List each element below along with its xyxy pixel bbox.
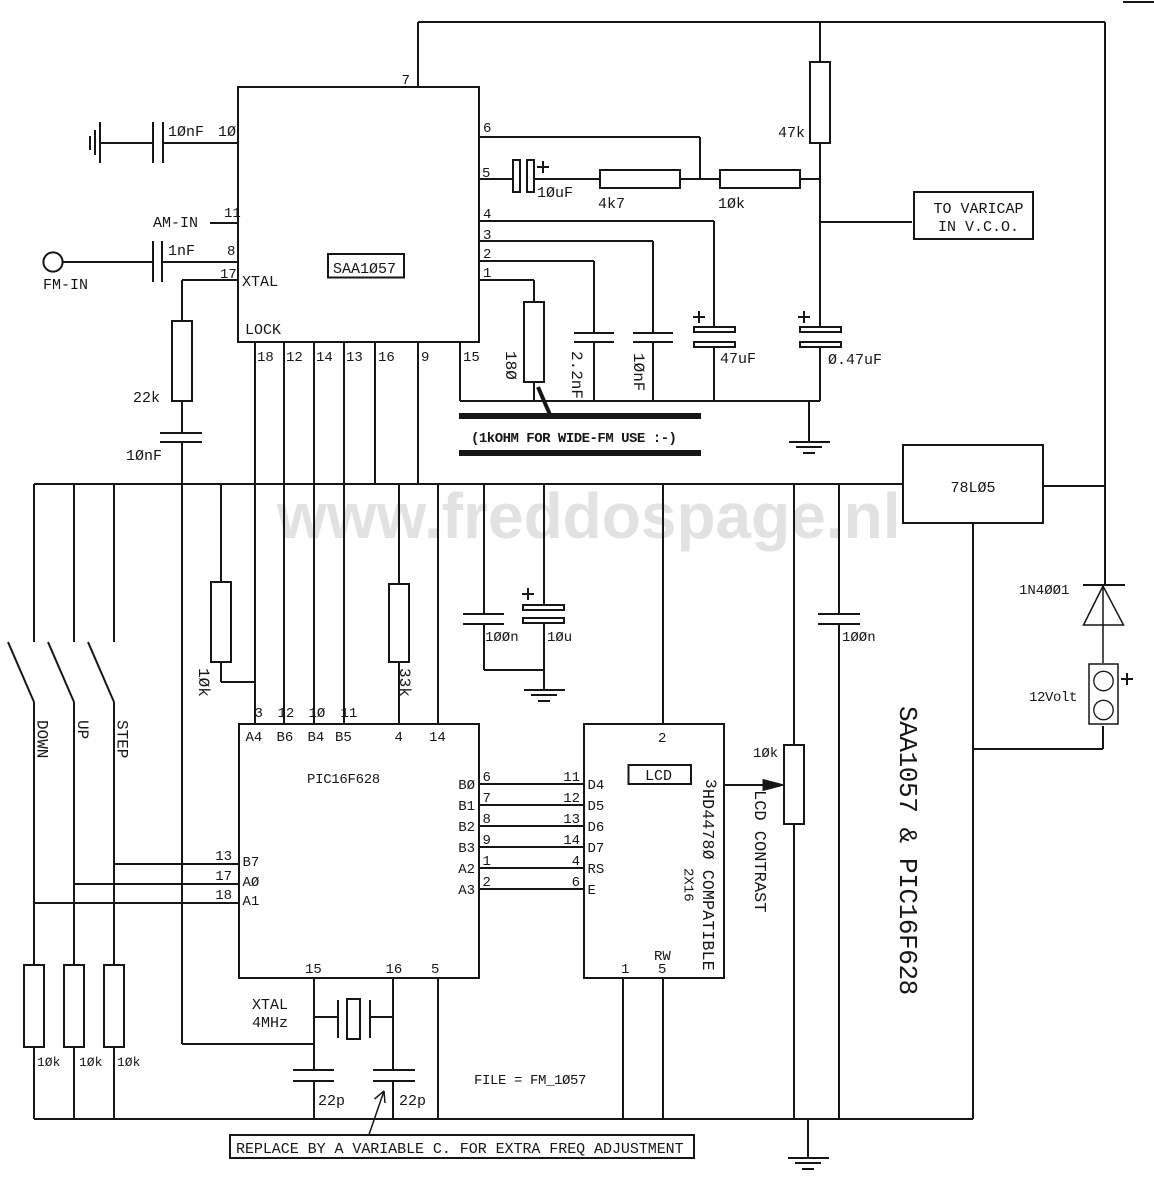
svg-text:22p: 22p xyxy=(318,1093,345,1110)
wire PIC A2 to LCD RS xyxy=(479,867,584,869)
pin label 2 xyxy=(658,731,666,747)
LCD name box xyxy=(629,765,692,784)
IC U1 name box xyxy=(328,254,404,278)
connector J1 12Volt body xyxy=(1089,664,1118,724)
wire R 180 to ground rail xyxy=(533,382,535,401)
wire pin 17 to R 22k xyxy=(182,280,238,321)
wire right C 100n to bottom rail xyxy=(838,624,840,1119)
label LCD CONTRAST rotated xyxy=(749,790,768,912)
value label 10k xyxy=(37,1055,61,1070)
svg-text:1: 1 xyxy=(621,962,629,978)
pin label 3 rotated xyxy=(701,779,719,789)
value label 1N4001 xyxy=(1019,583,1069,599)
pin 17 XTAL label xyxy=(242,274,278,291)
wire switch DOWN node to PIC pin 18 A1 xyxy=(34,902,239,904)
wire LCD pin 5 RW to bottom rail xyxy=(662,978,664,1119)
wire R 47k to varicap node and C 0.47uF xyxy=(819,143,821,327)
pin label 7 xyxy=(483,791,491,807)
IC U1 SAA1057 body xyxy=(238,87,479,342)
value label 100n xyxy=(485,630,519,646)
wire FM-IN to C 1nF xyxy=(62,261,153,263)
resistor R 10k pull-down STEP xyxy=(104,965,124,1047)
pin name D5 xyxy=(588,799,605,815)
crystal Y1 body xyxy=(347,999,360,1039)
pin name 14 xyxy=(429,730,446,746)
svg-text:47uF: 47uF xyxy=(720,351,756,368)
svg-text:BØ: BØ xyxy=(458,778,475,794)
resistor R 10k xyxy=(720,170,800,188)
wire C 10nF to ground rail xyxy=(652,342,654,401)
value label 22p xyxy=(399,1093,426,1110)
svg-text:1ØnF: 1ØnF xyxy=(126,448,162,465)
resistor R 33k xyxy=(389,584,409,662)
wire PIC A3 to LCD E xyxy=(479,888,584,890)
pin label 7 xyxy=(402,73,410,89)
wire switch UP to R 10k xyxy=(73,702,75,965)
wire crystal right lead xyxy=(370,1016,393,1018)
resistor R 47k xyxy=(810,62,830,143)
svg-text:STEP: STEP xyxy=(113,720,131,758)
note box REPLACE BY A VARIABLE C. xyxy=(230,1135,694,1158)
svg-text:2: 2 xyxy=(483,875,491,891)
svg-text:PIC16F628: PIC16F628 xyxy=(307,772,380,788)
callout bottom bar xyxy=(459,450,701,456)
svg-text:47k: 47k xyxy=(778,125,805,142)
pin name B7 xyxy=(243,855,260,871)
pin name D7 xyxy=(588,841,605,857)
svg-text:AØ: AØ xyxy=(243,875,260,891)
wire 5V bus to switch STEP xyxy=(113,484,115,642)
svg-text:(1kOHM FOR WIDE-FM USE :-): (1kOHM FOR WIDE-FM USE :-) xyxy=(471,431,676,447)
connector J1 pin circle + xyxy=(1094,671,1113,690)
resistor R 180 xyxy=(524,302,544,382)
label DOWN rotated xyxy=(33,720,51,758)
wire R 10k to bottom rail xyxy=(33,1047,35,1119)
pin name E xyxy=(588,883,596,899)
svg-text:1ØnF: 1ØnF xyxy=(629,353,647,391)
pin name RW xyxy=(654,949,671,965)
wire bottom rail to ground symbol xyxy=(807,1119,809,1158)
svg-text:15: 15 xyxy=(305,962,322,978)
svg-text:1ØØn: 1ØØn xyxy=(842,630,876,646)
svg-text:3: 3 xyxy=(701,779,719,789)
pin label 13 xyxy=(215,849,232,865)
svg-text:11: 11 xyxy=(341,706,358,722)
wire LCD pin 3 to potentiometer wiper xyxy=(724,784,763,786)
wire 5V bus to right C 100n xyxy=(838,484,840,614)
wire R 10k to varicap node xyxy=(800,178,820,180)
pin name 5 xyxy=(431,962,439,978)
value label 10nF rotated xyxy=(629,353,647,391)
pin label 16 xyxy=(378,350,395,366)
svg-text:14: 14 xyxy=(563,833,580,849)
svg-text:33k: 33k xyxy=(395,668,413,697)
pin label 10 xyxy=(218,124,236,141)
crystal Y1 right plate xyxy=(369,1000,371,1038)
pin label 10 xyxy=(309,706,326,722)
pin label 6 xyxy=(483,770,491,786)
decoupling capacitor C 100n right xyxy=(818,614,860,624)
pin label 17 xyxy=(215,869,232,885)
svg-text:6: 6 xyxy=(483,121,491,137)
label 4MHz xyxy=(252,1015,288,1032)
svg-text:1ØnF: 1ØnF xyxy=(168,124,204,141)
label UP rotated xyxy=(73,720,91,739)
pin name 4 xyxy=(395,730,403,746)
right supply rail from top to diode xyxy=(1104,22,1106,585)
wire C 22p right to bottom rail xyxy=(392,1081,394,1119)
svg-text:1: 1 xyxy=(483,854,491,870)
svg-text:LCD: LCD xyxy=(645,768,672,785)
value label 10nF xyxy=(168,124,204,141)
diode D1 1N4001 triangle xyxy=(1084,586,1124,625)
svg-text:LOCK: LOCK xyxy=(245,322,281,339)
wire SAA pin 9 to 5V bus xyxy=(417,342,419,484)
label FILE = FM_1057 xyxy=(474,1073,586,1089)
svg-text:A1: A1 xyxy=(243,894,260,910)
svg-text:1Ø: 1Ø xyxy=(309,706,326,722)
svg-text:12Volt: 12Volt xyxy=(1029,690,1077,706)
svg-text:TO VARICAP: TO VARICAP xyxy=(933,201,1023,218)
resistor R 4k7 xyxy=(600,170,680,188)
pin label 14 xyxy=(316,350,333,366)
pin name B4 xyxy=(308,730,325,746)
svg-text:22k: 22k xyxy=(133,390,160,407)
LCD name label xyxy=(645,768,672,785)
pin label 11 xyxy=(563,770,580,786)
svg-text:1ØuF: 1ØuF xyxy=(537,185,573,202)
pin name 16 xyxy=(386,962,403,978)
svg-text:5: 5 xyxy=(658,962,666,978)
value label 47uF xyxy=(720,351,756,368)
pin 18 LOCK label xyxy=(245,322,281,339)
svg-text:1Øk: 1Øk xyxy=(718,196,745,213)
callout pointer to R 180 xyxy=(538,387,551,417)
node FM-IN label xyxy=(43,277,88,294)
resistor R 10k pull-down DOWN xyxy=(24,965,44,1047)
wire SAA pin 12 to PIC pin 12 xyxy=(283,342,285,724)
pin name D6 xyxy=(588,820,605,836)
ground under C 0.47uF xyxy=(789,442,830,453)
pin label 9 xyxy=(483,833,491,849)
svg-text:1Øu: 1Øu xyxy=(547,630,572,646)
pin name B&#216; xyxy=(458,778,475,794)
wire C 10u to ground xyxy=(543,623,545,690)
svg-text:12: 12 xyxy=(563,791,580,807)
pin label 12 xyxy=(563,791,580,807)
pin name RS xyxy=(588,862,605,878)
wire 5V bus to C 100n xyxy=(483,484,485,614)
capacitor C 10nF at pin 10 xyxy=(153,122,163,163)
value label 10k xyxy=(117,1055,141,1070)
value label 10k xyxy=(79,1055,103,1070)
label TO VARICAP xyxy=(933,201,1023,218)
svg-text:www.freddospage.nl: www.freddospage.nl xyxy=(276,480,900,552)
svg-text:78LØ5: 78LØ5 xyxy=(950,480,995,497)
wire PIC B2 to LCD D6 xyxy=(479,825,584,827)
wire SAA pin 13 to PIC pin 11 xyxy=(343,342,345,724)
connector FM-IN terminal xyxy=(43,252,62,271)
note text REPLACE BY A VARIABLE C. FOR EXTRA FREQ ADJUSTMENT xyxy=(236,1141,684,1158)
callout text (1kOHM FOR WIDE-FM USE :-) xyxy=(471,431,676,447)
svg-text:12: 12 xyxy=(286,350,303,366)
wire through diode xyxy=(1102,585,1104,663)
svg-text:22p: 22p xyxy=(399,1093,426,1110)
wire SAA pin 15 to ground rail xyxy=(459,342,461,401)
pin label 2 xyxy=(483,875,491,891)
svg-text:18: 18 xyxy=(257,350,274,366)
svg-text:REPLACE BY A VARIABLE C. FOR E: REPLACE BY A VARIABLE C. FOR EXTRA FREQ … xyxy=(236,1141,684,1158)
label 12Volt xyxy=(1029,690,1077,706)
pin label 4 xyxy=(572,854,580,870)
capacitor C 47uF electrolytic xyxy=(694,327,735,347)
pin label 8 xyxy=(483,812,491,828)
wire 5V bus to switch UP xyxy=(73,484,75,642)
wire C 22p left to bottom rail xyxy=(313,1081,315,1119)
pin label 12 xyxy=(286,350,303,366)
pin name B2 xyxy=(458,820,475,836)
svg-text:13: 13 xyxy=(346,350,363,366)
svg-text:FILE = FM_1Ø57: FILE = FM_1Ø57 xyxy=(474,1073,586,1089)
svg-text:IN V.C.O.: IN V.C.O. xyxy=(938,219,1019,236)
wire PIC B1 to LCD D5 xyxy=(479,804,584,806)
svg-text:18: 18 xyxy=(215,888,232,904)
svg-text:1Ø: 1Ø xyxy=(218,124,236,141)
svg-text:13: 13 xyxy=(215,849,232,865)
svg-text:2: 2 xyxy=(658,731,666,747)
svg-text:E: E xyxy=(588,883,596,899)
switch DOWN arm xyxy=(8,642,34,702)
wire 5V bus to R 33k xyxy=(398,484,400,584)
potentiometer R 10k body xyxy=(784,745,804,824)
connector J1 pin circle - xyxy=(1094,700,1113,719)
diode D1 1N4001 cathode bar xyxy=(1083,584,1125,586)
polarity + of C 47uF xyxy=(693,311,705,323)
wire pin 4 to C 47uF xyxy=(479,221,714,327)
callout top bar xyxy=(459,413,701,419)
svg-text:B6: B6 xyxy=(277,730,294,746)
svg-text:1Øk: 1Øk xyxy=(79,1055,103,1070)
value label 22p xyxy=(318,1093,345,1110)
svg-text:4MHz: 4MHz xyxy=(252,1015,288,1032)
title SAA1057 & PIC16F628 rotated xyxy=(892,706,922,995)
regulator U3 78L05 box xyxy=(903,445,1043,523)
value label 22k xyxy=(133,390,160,407)
wire 5V bus to PIC pin 14 xyxy=(437,484,439,724)
pin label 1 xyxy=(483,266,491,282)
svg-text:A3: A3 xyxy=(458,883,475,899)
svg-text:14: 14 xyxy=(316,350,333,366)
capacitor C 10uF electrolytic xyxy=(513,160,534,192)
svg-text:4k7: 4k7 xyxy=(598,196,625,213)
wire SAA pin 16 to 5V bus xyxy=(374,342,376,484)
svg-text:RS: RS xyxy=(588,862,605,878)
pin label 11 xyxy=(224,206,241,222)
svg-text:XTAL: XTAL xyxy=(242,274,278,291)
pin label 13 xyxy=(346,350,363,366)
wire C 10nF down across 5V bus to XTAL net xyxy=(182,442,314,1044)
pin name B3 xyxy=(458,841,475,857)
wire pin 5 to C 10uF xyxy=(479,178,513,180)
wire PIC pin 5 to bottom rail xyxy=(437,978,439,1119)
wire 5V bus to R 10k pullup xyxy=(220,484,222,582)
wire 78L05 ground pin down to bottom rail xyxy=(972,523,974,1119)
switch UP arm xyxy=(48,642,74,702)
decoupling capacitor C 100n left xyxy=(463,614,504,624)
wire switch UP node to PIC pin 17 A0 xyxy=(74,883,239,885)
pin label 6 xyxy=(572,875,580,891)
crystal Y1 left plate xyxy=(337,1000,339,1038)
wire SAA1057 pin 7 to top rail xyxy=(417,22,419,87)
value label 10nF xyxy=(126,448,162,465)
value label 10k rotated xyxy=(194,668,212,697)
wire SAA pin 18 to PIC pin 3 xyxy=(254,342,256,724)
wire AM-IN to pin 11 xyxy=(210,222,238,224)
svg-text:11: 11 xyxy=(563,770,580,786)
polarity + of C 10uF xyxy=(537,161,549,173)
pin name A3 xyxy=(458,883,475,899)
pin label 9 xyxy=(421,350,429,366)
svg-text:B7: B7 xyxy=(243,855,260,871)
ground at C 10nF pin 10 xyxy=(90,122,100,163)
svg-text:8: 8 xyxy=(227,244,235,260)
label 2X16 rotated xyxy=(680,868,696,902)
svg-text:4: 4 xyxy=(395,730,403,746)
pin label 1 xyxy=(621,962,629,978)
value label 0.47uF xyxy=(828,352,882,369)
svg-text:SAA1Ø57: SAA1Ø57 xyxy=(333,261,396,278)
wire varicap node to output box xyxy=(820,221,912,223)
resistor R 22k xyxy=(172,321,192,401)
svg-text:UP: UP xyxy=(73,720,91,739)
polarity + of connector xyxy=(1121,673,1133,685)
ground rail under SAA1057 xyxy=(460,400,820,402)
capacitor C 10nF at pin 3 xyxy=(633,333,673,342)
wire PIC B3 to LCD D7 xyxy=(479,846,584,848)
wire R 33k to PIC pin 4 xyxy=(398,662,400,724)
svg-text:D7: D7 xyxy=(588,841,605,857)
svg-text:6: 6 xyxy=(572,875,580,891)
wire R 10k pullup to PIC pin 3 net xyxy=(221,662,255,682)
resistor R 10k pullup xyxy=(211,582,231,662)
polarity + of C 0.47uF xyxy=(798,311,810,323)
value label 10uF xyxy=(537,185,573,202)
pin name A4 xyxy=(246,730,263,746)
IC U2 name label PIC16F628 xyxy=(307,772,380,788)
svg-text:7: 7 xyxy=(483,791,491,807)
svg-text:1N4ØØ1: 1N4ØØ1 xyxy=(1019,583,1069,599)
polarity + of C 10u xyxy=(522,588,534,600)
value label 10k xyxy=(718,196,745,213)
pin label 3 xyxy=(255,706,263,722)
wire 5V bus to switch DOWN xyxy=(33,484,35,642)
pin name A2 xyxy=(458,862,475,878)
svg-text:FM-IN: FM-IN xyxy=(43,277,88,294)
svg-text:14: 14 xyxy=(429,730,446,746)
wire 5V bus to LCD pin 2 xyxy=(662,484,664,724)
label IN V.C.O. xyxy=(938,219,1019,236)
wire potentiometer to bottom rail xyxy=(793,824,795,1119)
output box TO VARICAP IN V.C.O. xyxy=(914,192,1033,239)
ground bottom rail xyxy=(34,1118,973,1120)
watermark www.freddospage.nl xyxy=(276,480,900,552)
wire C 47uF to ground rail xyxy=(713,347,715,401)
svg-text:15: 15 xyxy=(463,350,480,366)
capacitor C 1nF xyxy=(153,241,162,282)
pin label 12 xyxy=(278,706,295,722)
IC U2 PIC16F628 body xyxy=(239,724,479,978)
LCD module body xyxy=(584,724,724,978)
wire pin 2 to C 2.2nF xyxy=(479,261,594,333)
wire 5V bus to C 10u xyxy=(543,484,545,605)
wire R 10k to bottom rail xyxy=(73,1047,75,1119)
svg-text:B4: B4 xyxy=(308,730,325,746)
pin label 6 xyxy=(483,121,491,137)
svg-text:11: 11 xyxy=(224,206,241,222)
value label 100n xyxy=(842,630,876,646)
value label 4k7 xyxy=(598,196,625,213)
resistor R 10k pull-down UP xyxy=(64,965,84,1047)
svg-text:4: 4 xyxy=(572,854,580,870)
wire pin 3 to C 10nF xyxy=(479,241,653,333)
potentiometer wiper arrow xyxy=(763,780,784,791)
svg-text:Ø.47uF: Ø.47uF xyxy=(828,352,882,369)
wire C 10uF to R 4k7 xyxy=(534,178,600,180)
value label 10k xyxy=(753,746,778,762)
svg-text:17: 17 xyxy=(215,869,232,885)
wire C 0.47uF to ground rail xyxy=(819,347,821,401)
pin label 1 xyxy=(483,854,491,870)
pin name B5 xyxy=(335,730,352,746)
wire R 10k to bottom rail xyxy=(113,1047,115,1119)
wire top-right edge stub xyxy=(1123,1,1154,3)
svg-text:1Øk: 1Øk xyxy=(194,668,212,697)
pin label 13 xyxy=(563,812,580,828)
wire switch STEP to R 10k xyxy=(113,702,115,965)
svg-text:B3: B3 xyxy=(458,841,475,857)
capacitor C 2.2nF xyxy=(574,333,614,342)
wire switch STEP node to PIC pin 13 B7 xyxy=(114,863,239,865)
wire pin 6 to R4k7/R10k junction xyxy=(479,137,700,179)
wire ground rail to ground symbol xyxy=(808,401,810,441)
IC U1 name label SAA1057 xyxy=(333,261,396,278)
value label 180 rotated xyxy=(501,351,519,380)
wire PIC B&#216; to LCD D4 xyxy=(479,783,584,785)
5V bus horizontal xyxy=(34,483,903,485)
pin label 15 xyxy=(463,350,480,366)
svg-text:6: 6 xyxy=(483,770,491,786)
pin name B1 xyxy=(458,799,475,815)
ground symbol bottom xyxy=(788,1158,829,1169)
wire 78L05 output to right rail xyxy=(1043,485,1105,487)
svg-text:AM-IN: AM-IN xyxy=(153,215,198,232)
svg-text:9: 9 xyxy=(483,833,491,849)
svg-text:B1: B1 xyxy=(458,799,475,815)
wire connector minus to ground net xyxy=(973,726,1103,749)
pin label 18 xyxy=(257,350,274,366)
svg-text:16: 16 xyxy=(386,962,403,978)
wire R 4k7 to R 10k xyxy=(680,178,720,180)
label HD44780 COMPATIBLE rotated xyxy=(698,789,717,971)
pin label 5 xyxy=(658,962,666,978)
pin label 4 xyxy=(483,207,491,223)
value label 1nF xyxy=(168,243,195,260)
wire crystal left lead xyxy=(314,1016,338,1018)
pin label 2 xyxy=(483,247,491,263)
pin name A0 xyxy=(243,875,260,891)
label XTAL xyxy=(252,997,288,1014)
svg-text:D4: D4 xyxy=(588,778,605,794)
